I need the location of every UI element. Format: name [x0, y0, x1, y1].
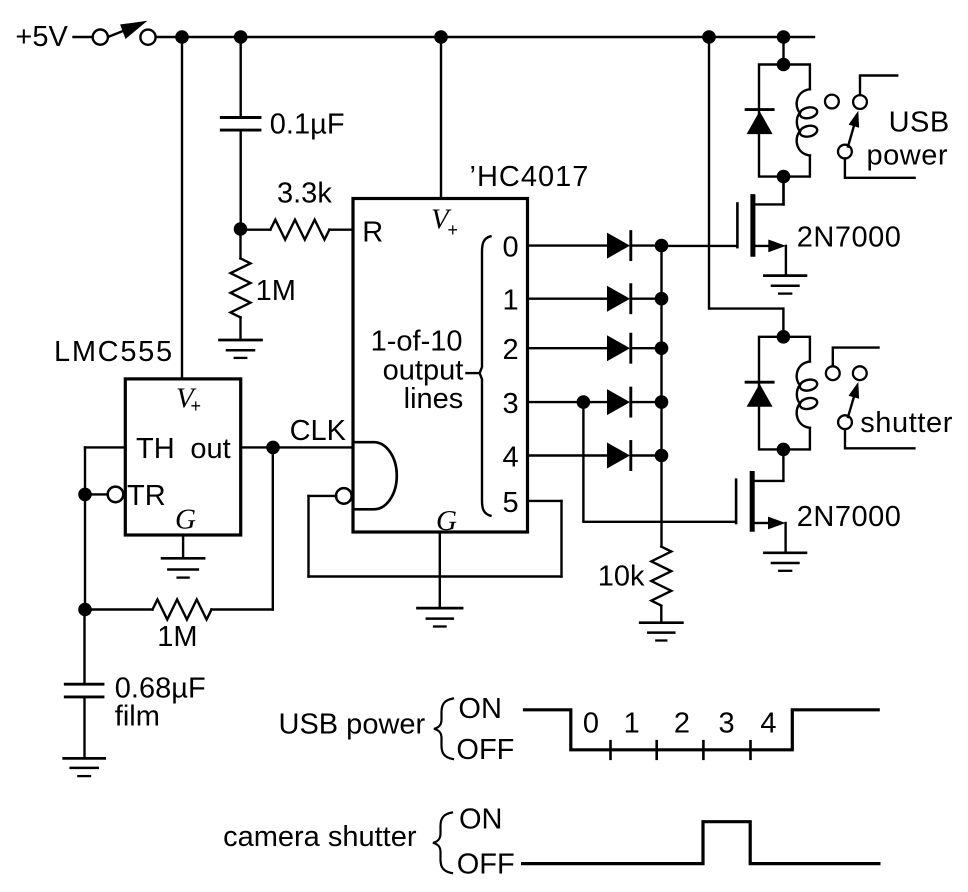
label U1 TR pin	[127, 480, 166, 512]
relay K1 left branch	[759, 65, 784, 177]
node out junction	[266, 441, 280, 455]
label 0.68µF	[115, 672, 206, 704]
node rail-LMC555	[175, 30, 189, 44]
transistor Q2 2N7000	[736, 474, 786, 552]
wire D2 cathode	[633, 298, 662, 300]
node rail-HC4017	[434, 30, 448, 44]
svg-text:film: film	[115, 700, 160, 732]
waveform USB power	[525, 710, 879, 750]
wire K1 common out	[845, 159, 915, 178]
wire K1 to Q1 drain	[782, 177, 784, 205]
brace timing 1	[434, 699, 453, 760]
label count 3	[719, 708, 735, 740]
wire K1 from rail	[782, 37, 784, 65]
relay K2 left branch	[759, 337, 783, 450]
wire D5 cathode	[633, 454, 662, 456]
wire K2 NC out	[833, 348, 879, 367]
label 1M (R3)	[157, 621, 197, 653]
tick 3 (timing 1)	[702, 741, 705, 759]
wire out down to R3	[272, 447, 274, 609]
label U1 V+	[176, 383, 201, 416]
svg-text:5: 5	[503, 487, 519, 519]
label output digit 1	[503, 285, 519, 317]
relay K1 contact NO	[853, 95, 867, 109]
svg-text:1-of-10: 1-of-10	[371, 326, 463, 358]
label U2 R pin	[362, 217, 383, 249]
wire U2 V+ pin	[440, 37, 442, 199]
node A reset-RC	[234, 222, 248, 236]
svg-text:1M: 1M	[157, 621, 197, 653]
wire gate Q1	[662, 245, 737, 247]
label U2 V+	[431, 204, 458, 241]
svg-text:R: R	[362, 217, 383, 249]
label U1 G pin	[175, 503, 196, 535]
label HC4017	[470, 161, 590, 193]
switch S1 contact right	[140, 30, 155, 45]
svg-text:0.1µF: 0.1µF	[270, 109, 345, 141]
label count 4	[760, 708, 776, 740]
svg-text:10k: 10k	[598, 561, 645, 593]
relay K1 contact NC	[825, 95, 839, 109]
node bus 4	[655, 449, 669, 463]
relay K1 contact common	[838, 145, 852, 159]
label power	[867, 140, 949, 172]
resistor R1 3.3k	[241, 220, 353, 240]
label 1M (R2)	[256, 275, 296, 307]
svg-text:OFF: OFF	[456, 734, 514, 766]
node K1 top	[777, 58, 791, 72]
svg-text:2N7000: 2N7000	[797, 222, 902, 254]
svg-text:ON: ON	[458, 693, 502, 725]
svg-text:G: G	[175, 503, 196, 535]
tick 4 (timing 1)	[749, 741, 752, 759]
svg-text:2N7000: 2N7000	[797, 501, 902, 533]
label count 2	[674, 708, 690, 740]
label 3.3k	[277, 178, 332, 210]
bubble TR input	[108, 487, 124, 503]
diode D2	[607, 285, 631, 313]
svg-text:out: out	[190, 433, 230, 465]
label 1-of-10	[371, 326, 463, 358]
wire output 5	[528, 500, 562, 502]
wire +5V rail	[156, 36, 814, 38]
svg-text:TH: TH	[136, 433, 175, 465]
diode D4	[607, 388, 631, 416]
node output 3 tap	[577, 395, 591, 409]
label Q1 2N7000	[797, 222, 902, 254]
diode D6 flyback K1	[746, 110, 773, 135]
wire U1 G pin	[182, 535, 184, 558]
node K2 bottom	[777, 443, 791, 457]
wire D3 cathode	[633, 347, 662, 349]
svg-text:2: 2	[674, 708, 690, 740]
wire K2 feed	[709, 37, 783, 337]
bubble clock-inhibit	[336, 488, 352, 504]
svg-text:shutter: shutter	[860, 407, 953, 439]
wire TH pin	[85, 446, 125, 448]
wire K2 to Q2 drain	[782, 449, 784, 481]
svg-text:2: 2	[503, 334, 519, 366]
wire output 1	[528, 298, 608, 300]
node rail-K2 feed	[702, 30, 716, 44]
label output digit 5	[503, 487, 519, 519]
label count 0	[583, 708, 599, 740]
svg-text:’HC4017: ’HC4017	[470, 161, 590, 193]
label LMC555	[54, 336, 174, 368]
node K2 top	[777, 330, 791, 344]
capacitor C2 0.68µF film	[65, 610, 103, 758]
wire gate Q2	[583, 402, 735, 522]
svg-text:1: 1	[624, 708, 640, 740]
ground U2	[418, 608, 463, 626]
svg-text:+5V: +5V	[15, 21, 68, 53]
wire D4 cathode	[633, 401, 662, 403]
label U1 out pin	[190, 433, 230, 465]
label camera shutter (timing)	[223, 821, 417, 853]
resistor R2 1M	[231, 229, 251, 340]
resistor R3 1M	[85, 600, 273, 620]
svg-text:TR: TR	[127, 480, 166, 512]
brace output lines	[480, 236, 491, 515]
svg-text:1: 1	[503, 285, 519, 317]
label 0.1µF	[270, 109, 345, 141]
label USB	[889, 107, 950, 139]
ground R4	[640, 623, 682, 641]
svg-text:3.3k: 3.3k	[277, 178, 332, 210]
svg-text:LMC555: LMC555	[54, 336, 174, 368]
switch S1 contact left	[93, 29, 108, 44]
wire LMC555 V+ pin	[181, 37, 183, 379]
svg-text:output: output	[383, 355, 464, 387]
svg-text:3: 3	[719, 708, 735, 740]
node bus 1	[655, 292, 669, 306]
node R3 left junction	[78, 603, 92, 617]
node rail-C1	[234, 30, 248, 44]
diode D5	[607, 442, 631, 470]
label Q2 2N7000	[797, 501, 902, 533]
waveform camera shutter	[523, 822, 879, 864]
ground C2	[64, 758, 105, 776]
svg-text:lines: lines	[404, 383, 464, 415]
relay K2 contact common	[838, 415, 852, 429]
label output digit 0	[503, 232, 519, 264]
switch S1 arm	[109, 21, 148, 39]
relay K1 coil	[784, 65, 819, 177]
svg-text:USB: USB	[889, 107, 950, 139]
svg-text:CLK: CLK	[290, 415, 347, 447]
wire K1 NO out	[860, 76, 897, 96]
node rail-K1	[777, 30, 791, 44]
label +5V supply	[15, 21, 68, 53]
svg-text:0: 0	[503, 232, 519, 264]
ground Q1	[764, 276, 806, 294]
wire output 4	[528, 454, 608, 456]
label shutter	[860, 407, 953, 439]
ground U1	[162, 558, 204, 577]
svg-text:1M: 1M	[256, 275, 296, 307]
svg-text:ON: ON	[459, 804, 503, 836]
svg-text:OFF: OFF	[457, 849, 515, 881]
resistor R4 10k	[651, 547, 671, 623]
label OFF (2)	[457, 849, 515, 881]
wire left rail TH-TR-R3	[84, 447, 86, 609]
svg-text:4: 4	[503, 442, 519, 474]
node K1 bottom	[777, 170, 791, 184]
label ON (2)	[459, 804, 503, 836]
label USB power (timing)	[279, 709, 426, 741]
CLK edge-detect symbol	[355, 442, 397, 509]
IC U2 HC4017 box	[353, 199, 528, 533]
svg-text:3: 3	[503, 388, 519, 420]
svg-text:4: 4	[760, 708, 776, 740]
dash output-brace	[467, 372, 478, 374]
tick 2 (timing 1)	[655, 741, 658, 759]
transistor Q1 2N7000	[737, 177, 786, 275]
relay K2 contact NO	[853, 366, 867, 380]
label lines	[404, 383, 464, 415]
label CLK	[290, 415, 347, 447]
relay K2 contact NC	[826, 366, 840, 380]
ground R2	[220, 340, 262, 358]
wire diode bus	[660, 246, 662, 547]
label ON (1)	[458, 693, 502, 725]
label count 1	[624, 708, 640, 740]
capacitor C1 0.1µF	[221, 37, 260, 228]
label output digit 3	[503, 388, 519, 420]
wire inhibit feedback	[309, 496, 562, 577]
label output digit 4	[503, 442, 519, 474]
wire TR pin	[85, 493, 108, 495]
svg-text:0: 0	[583, 708, 599, 740]
wire D1 cathode	[633, 244, 662, 246]
svg-text:+: +	[191, 396, 202, 416]
brace timing 2	[433, 813, 452, 874]
label U1 TH pin	[136, 433, 175, 465]
wire output 0	[528, 244, 608, 246]
label film	[115, 700, 160, 732]
label 10k	[598, 561, 645, 593]
label U2 G pin	[436, 505, 457, 537]
node bus 0	[655, 239, 669, 253]
svg-text:USB power: USB power	[279, 709, 426, 741]
relay K2 armature	[848, 382, 859, 417]
diode D1	[607, 232, 631, 260]
relay K1 armature	[848, 111, 859, 147]
IC U1 LMC555 box	[125, 379, 240, 535]
label output digit 2	[503, 334, 519, 366]
label OFF (1)	[456, 734, 514, 766]
wire output 3	[528, 401, 608, 403]
svg-text:camera shutter: camera shutter	[223, 821, 417, 853]
wire K2 common out	[845, 429, 914, 448]
node bus 2	[655, 341, 669, 355]
node bus 3	[655, 395, 669, 409]
relay K2 coil	[783, 337, 818, 450]
node TR junction	[78, 488, 92, 502]
wire out to CLK	[241, 446, 353, 448]
svg-text:+: +	[448, 220, 459, 240]
wire output 2	[528, 347, 608, 349]
tick 1 (timing 1)	[609, 741, 612, 759]
wire +5V to switch	[74, 36, 93, 38]
ground Q2	[764, 553, 806, 571]
diode D3	[607, 334, 631, 362]
label output	[383, 355, 464, 387]
svg-text:power: power	[867, 140, 949, 172]
diode D7 flyback K2	[746, 382, 773, 407]
wire U2 G pin	[439, 532, 441, 608]
